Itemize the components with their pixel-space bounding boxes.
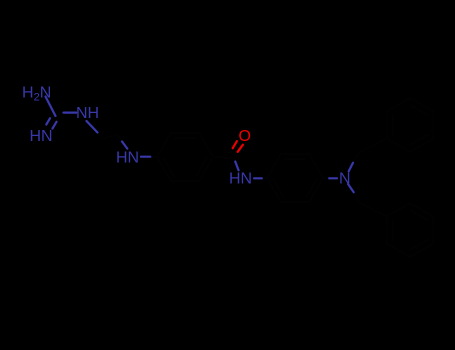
wire CH2 to anilino HN [122, 142, 127, 149]
wire C=O double bond line a [233, 141, 237, 148]
benzene ring4 [387, 203, 434, 257]
wire ring2 to amine N [323, 177, 328, 179]
svg-text:HN: HN [116, 150, 139, 167]
wire NH to CH2 [87, 121, 98, 133]
wire C=NH double bond line a [46, 118, 50, 124]
svg-text:NH: NH [76, 105, 99, 122]
wire amine N to CH2 top half [349, 163, 353, 172]
wire H2N to guanidine C [46, 97, 56, 117]
wire ethylene chain C1-C2 [98, 133, 123, 142]
wire guanidine C to NH (horizontal) [64, 111, 77, 113]
wire C=NH double bond line b [53, 122, 57, 129]
benzene ring1 [157, 133, 213, 181]
wire HN to ring1 [150, 156, 157, 158]
svg-text:N: N [339, 171, 351, 188]
wire CH2 bottom to benzyl ipso [359, 202, 387, 216]
wire anilino HN to ring1 [141, 156, 150, 158]
benzene ring4 inner bonds [393, 210, 428, 250]
wire C=N dark halves [50, 114, 60, 122]
wire amide N to ring2 [262, 177, 267, 179]
svg-text:HN: HN [30, 128, 53, 145]
wire ring2 to amine N [329, 177, 337, 179]
benzene ring1 inner bonds [163, 138, 206, 176]
benzene ring3 inner bonds [393, 105, 428, 145]
wire C=O double bond line b [238, 145, 243, 152]
wire guanidine C vertex joins [56, 113, 63, 117]
wire carbonyl C to amide N [235, 162, 238, 171]
wire ring1 to carbonyl C [213, 157, 235, 158]
wire CH2 top to benzyl ipso [359, 139, 387, 153]
benzene ring2 inner bonds [273, 159, 316, 197]
wire amine N to CH2 bottom half [348, 184, 354, 192]
wire carbonyl C to amide N [234, 158, 236, 162]
benzene ring3 [387, 98, 434, 152]
wire amine N to CH2 bottom [354, 192, 359, 202]
benzene ring2 [267, 154, 323, 202]
wire C=O dark halves [231, 149, 238, 156]
wire amine N to CH2 top [353, 153, 359, 163]
svg-text:HN: HN [229, 171, 252, 188]
wire amide N to ring2 [254, 177, 262, 179]
svg-text:O: O [239, 128, 251, 145]
